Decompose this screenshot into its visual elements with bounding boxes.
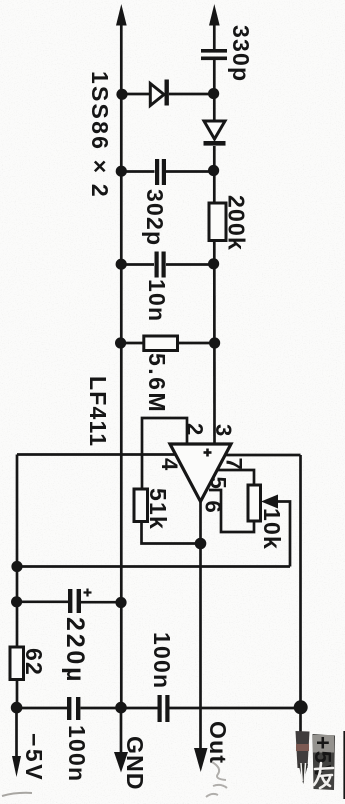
wire: +5V stub [299, 708, 302, 735]
junction dot row4-right [209, 337, 220, 348]
wire: op-amp output vertical (Out line) [199, 501, 202, 750]
watermark block 1 (dark strip) [296, 731, 310, 768]
junction dot output node [195, 538, 207, 550]
resistor R1 200k body [209, 203, 226, 241]
svg-text:−5V: −5V [21, 733, 47, 782]
wire: left vertical rail (negative supply rail) [16, 455, 19, 709]
wire: GND stub [120, 708, 123, 753]
junction dot row1-left [116, 89, 127, 100]
junction dot row3-right [208, 258, 219, 269]
arrow GND [114, 752, 128, 773]
svg-text:62: 62 [21, 648, 47, 676]
wire: row 2 horizontal (302p row) [121, 170, 154, 173]
arrow top of middle rail [116, 4, 127, 26]
junction dot middle rail y602 [115, 597, 126, 608]
wire: row 4 horizontal (5.6M row) [121, 342, 144, 345]
diode D2 (vertical, pointing down) [204, 121, 226, 146]
diode D1 (horizontal, pointing right) [150, 80, 169, 106]
svg-text:100n: 100n [149, 632, 175, 689]
wire: -5V stub [15, 708, 18, 757]
capacitor C5 100n plates (left) [67, 697, 80, 720]
stray mark bottom left [2, 793, 32, 796]
op-amp plus sign [204, 449, 212, 457]
junction dot left rail y601 [11, 596, 22, 607]
capacitor C1 330p plates [201, 49, 227, 60]
svg-text:2: 2 [183, 423, 208, 435]
junction dot row3-left [116, 259, 127, 270]
svg-text:5.6M: 5.6M [144, 353, 170, 414]
wire: pin 7 to right frame [224, 454, 301, 457]
wire: right vertical rail (to op-amp pin 3) [213, 14, 216, 50]
svg-text:Out: Out [205, 721, 231, 764]
svg-text:10k: 10k [259, 508, 285, 550]
svg-text:10n: 10n [144, 279, 170, 322]
wire: pin 5 to pot bottom [209, 490, 254, 532]
svg-text:LF411: LF411 [85, 376, 111, 447]
svg-text:GND: GND [122, 736, 148, 791]
wire: bottom supply bus [17, 707, 68, 710]
capacitor C4 220u plates [68, 589, 81, 613]
svg-text:200k: 200k [224, 195, 250, 251]
svg-text:220µ: 220µ [61, 617, 89, 684]
wire: wiper return horizontal at y=566 [17, 565, 290, 568]
resistor R3 51k body [134, 489, 148, 522]
svg-text:7: 7 [222, 458, 247, 470]
junction dot left rail y566 [11, 561, 22, 572]
right edge black bar [343, 731, 345, 799]
svg-text:4: 4 [157, 458, 182, 471]
wire: right frame vertical (+5V rail) [299, 455, 302, 708]
junction dot bus-middle [115, 702, 127, 714]
junction dot row1-right [208, 88, 219, 99]
junction dot row2-left [116, 166, 127, 177]
wire: middle vertical rail (non-inverting network left bus) [120, 14, 123, 708]
capacitor C6 100n plates (right) [158, 695, 170, 722]
wire: pot wiper to -5V rail [276, 502, 290, 567]
op-amp U1 triangle [170, 444, 231, 502]
junction dot row4-left [115, 337, 126, 348]
wire: 51k bottom lead to output node [142, 522, 201, 544]
capacitor C2 302p plates [155, 159, 166, 185]
watermark arrow below strip [299, 764, 309, 784]
svg-text:3: 3 [211, 424, 236, 436]
watermark block 2 (dark block) [313, 734, 336, 790]
wire: row 3 horizontal (10n row) [121, 263, 154, 266]
potentiometer R4 10k body [248, 485, 261, 521]
junction dot row2-right [208, 165, 219, 176]
arrow Out [194, 748, 208, 772]
junction dot bus-left [11, 702, 23, 714]
svg-text:100n: 100n [64, 725, 90, 782]
arrow -5V [12, 756, 21, 777]
capacitor C3 10n plates [155, 252, 166, 278]
capacitor C4 plus sign [84, 589, 92, 597]
svg-text:5: 5 [206, 477, 231, 489]
wire: pin 4 to left rail [17, 453, 176, 456]
resistor R2 5.6M body [144, 336, 178, 351]
junction dot bus-right [294, 700, 308, 714]
wire: 220u row horizontal [17, 600, 68, 603]
watermark red band [296, 744, 309, 751]
svg-text:302p: 302p [142, 189, 168, 246]
scribble marks near Out [206, 762, 227, 797]
potentiometer wiper arrow [261, 495, 278, 509]
svg-text:330p: 330p [228, 25, 254, 82]
svg-text:6: 6 [201, 501, 226, 513]
wire: pot top lead from op-amp [217, 470, 254, 485]
svg-text:1SS86 × 2: 1SS86 × 2 [87, 71, 113, 199]
resistor R5 62 body [10, 647, 24, 680]
watermark character you (white strokes) [314, 763, 333, 788]
wire: row 1 horizontal (diode D1 row) [121, 93, 150, 96]
arrow top of right rail [209, 4, 220, 26]
wire: pin 2 feedback loop (op-amp inverting input to 51k) [142, 418, 187, 489]
svg-text:51k: 51k [145, 488, 171, 530]
